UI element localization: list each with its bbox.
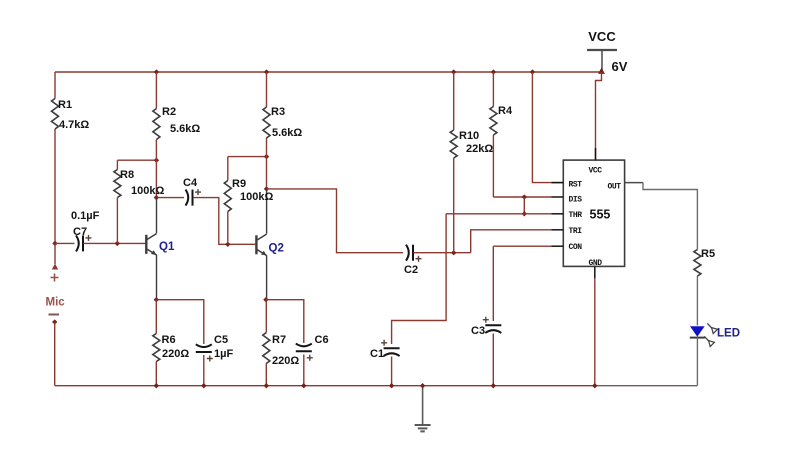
capacitor C1 xyxy=(384,347,400,349)
wire xyxy=(552,245,564,247)
svg-text:22kΩ: 22kΩ xyxy=(466,143,493,155)
wire xyxy=(595,385,698,387)
resistor R3 xyxy=(263,107,270,138)
svg-text:VCC: VCC xyxy=(588,29,616,44)
junction xyxy=(301,383,306,388)
wire xyxy=(266,255,268,300)
svg-text:5.6kΩ: 5.6kΩ xyxy=(272,127,302,139)
wire xyxy=(266,300,304,343)
wire xyxy=(156,255,158,300)
wire xyxy=(595,148,597,160)
ground xyxy=(415,386,431,432)
junction xyxy=(592,383,597,388)
wire xyxy=(532,72,563,183)
junction xyxy=(264,186,269,191)
wire xyxy=(227,212,229,245)
resistor R7 xyxy=(263,333,270,364)
svg-text:C4: C4 xyxy=(183,177,198,189)
wire xyxy=(453,72,455,130)
resistor R10 xyxy=(450,130,457,158)
svg-text:R4: R4 xyxy=(498,105,513,117)
svg-text:GND: GND xyxy=(589,259,603,268)
capacitor C7 xyxy=(76,235,79,251)
wire xyxy=(55,242,75,244)
wire xyxy=(55,71,602,73)
mic plus xyxy=(51,274,59,282)
svg-text:R1: R1 xyxy=(58,99,72,111)
wire xyxy=(155,300,157,334)
junction xyxy=(225,242,230,247)
wire xyxy=(54,129,56,243)
svg-text:6V: 6V xyxy=(612,59,628,74)
wire xyxy=(446,213,551,215)
wire xyxy=(492,334,494,386)
wire xyxy=(265,364,267,386)
wire xyxy=(471,230,552,253)
wire xyxy=(492,135,494,197)
capacitor C6 xyxy=(296,350,312,352)
wire xyxy=(155,362,157,386)
svg-text:R2: R2 xyxy=(162,106,176,118)
wire xyxy=(227,157,229,181)
junction xyxy=(451,69,456,74)
LED arrows xyxy=(704,323,717,346)
svg-text:C1: C1 xyxy=(370,348,384,360)
wire xyxy=(552,196,564,198)
junction xyxy=(522,211,527,216)
junction xyxy=(154,383,159,388)
svg-text:C6: C6 xyxy=(315,334,329,346)
svg-text:R8: R8 xyxy=(120,169,134,181)
wire xyxy=(267,189,404,253)
LED D1 xyxy=(690,326,705,337)
junction xyxy=(451,250,456,255)
wire xyxy=(493,196,551,198)
svg-text:R9: R9 xyxy=(232,178,246,190)
junction xyxy=(201,383,206,388)
svg-text:C2: C2 xyxy=(404,264,418,276)
svg-text:Q2: Q2 xyxy=(269,243,284,255)
svg-text:R3: R3 xyxy=(271,106,285,118)
junction xyxy=(530,69,535,74)
resistor R1 xyxy=(52,99,59,130)
mic terminal arrow xyxy=(52,264,58,270)
wire xyxy=(156,197,184,199)
junction xyxy=(491,383,496,388)
wire xyxy=(453,158,455,253)
op-amp/timer U1 555 xyxy=(563,160,624,266)
svg-text:VCC: VCC xyxy=(589,167,603,176)
resistor R2 xyxy=(153,109,160,140)
wire xyxy=(392,214,447,344)
wire xyxy=(391,357,393,386)
junction xyxy=(115,241,120,246)
svg-text:220Ω: 220Ω xyxy=(162,348,189,360)
wire xyxy=(54,72,56,99)
svg-text:R10: R10 xyxy=(459,130,479,142)
wire xyxy=(492,72,494,107)
junction xyxy=(264,154,269,159)
wire xyxy=(303,355,305,386)
node 6V xyxy=(598,68,605,74)
capacitor C4 xyxy=(186,190,189,206)
junction xyxy=(491,69,496,74)
svg-text:5.6kΩ: 5.6kΩ xyxy=(170,123,200,135)
resistor R8 xyxy=(114,170,121,198)
wire xyxy=(552,182,564,184)
junction xyxy=(52,319,57,324)
wire xyxy=(696,338,698,386)
wire xyxy=(117,159,156,161)
wire xyxy=(492,246,494,321)
svg-text:CON: CON xyxy=(569,243,583,252)
wire xyxy=(643,183,697,250)
wire xyxy=(203,355,205,386)
svg-text:0.1µF: 0.1µF xyxy=(71,210,100,222)
svg-text:LED: LED xyxy=(717,328,740,340)
wire xyxy=(54,243,56,264)
wire xyxy=(594,266,596,278)
wire xyxy=(265,300,267,333)
wire xyxy=(266,72,268,107)
svg-text:DIS: DIS xyxy=(569,196,583,205)
svg-text:100kΩ: 100kΩ xyxy=(131,185,164,197)
wire xyxy=(625,182,643,184)
wire xyxy=(84,242,147,244)
capacitor C5 xyxy=(196,351,212,353)
svg-text:4.7kΩ: 4.7kΩ xyxy=(59,119,89,131)
wire xyxy=(156,300,204,344)
junction xyxy=(389,383,394,388)
transistor Q1 xyxy=(145,235,147,254)
wire xyxy=(596,72,602,160)
junction xyxy=(420,383,425,388)
wire xyxy=(696,276,698,326)
junction xyxy=(263,297,268,302)
junction xyxy=(522,194,527,199)
junction xyxy=(52,241,57,246)
wire xyxy=(414,252,471,254)
svg-text:R7: R7 xyxy=(272,334,286,346)
junction xyxy=(154,195,159,200)
svg-text:R6: R6 xyxy=(162,334,176,346)
junction xyxy=(264,69,269,74)
svg-text:RST: RST xyxy=(569,181,583,190)
resistor R6 xyxy=(153,334,160,362)
svg-text:C3: C3 xyxy=(471,325,485,337)
capacitor C3 xyxy=(485,324,501,326)
resistor R5 xyxy=(694,250,701,277)
svg-text:1µF: 1µF xyxy=(214,348,233,360)
wire xyxy=(156,198,158,234)
svg-text:555: 555 xyxy=(590,208,611,222)
svg-text:OUT: OUT xyxy=(608,183,622,192)
wire xyxy=(266,138,268,189)
svg-text:Mic: Mic xyxy=(46,297,66,309)
junction xyxy=(154,297,159,302)
wire xyxy=(116,198,118,244)
svg-text:TRI: TRI xyxy=(569,227,583,236)
wire xyxy=(116,160,118,169)
wire xyxy=(594,278,596,385)
wire xyxy=(552,229,564,231)
transistor Q2 xyxy=(255,235,257,254)
wire xyxy=(155,72,157,109)
svg-text:C7: C7 xyxy=(73,226,87,238)
power VCC xyxy=(587,49,617,51)
svg-text:R5: R5 xyxy=(701,248,715,260)
wire xyxy=(523,197,525,214)
wire xyxy=(54,322,56,386)
resistor R9 xyxy=(224,181,231,212)
svg-text:THR: THR xyxy=(569,211,583,220)
svg-text:Q1: Q1 xyxy=(159,241,175,253)
wire xyxy=(228,156,267,158)
junction xyxy=(264,383,269,388)
wire xyxy=(493,245,551,247)
wire xyxy=(55,385,595,387)
junction xyxy=(154,158,159,163)
resistor R4 xyxy=(490,107,497,136)
svg-text:220Ω: 220Ω xyxy=(272,355,299,367)
wire xyxy=(552,213,564,215)
svg-text:100kΩ: 100kΩ xyxy=(240,191,273,203)
mic minus xyxy=(49,314,60,316)
wire xyxy=(155,140,157,198)
svg-text:C5: C5 xyxy=(214,334,228,346)
junction xyxy=(154,69,159,74)
wire xyxy=(266,189,268,234)
capacitor C2 xyxy=(406,245,409,261)
wire xyxy=(193,198,255,245)
